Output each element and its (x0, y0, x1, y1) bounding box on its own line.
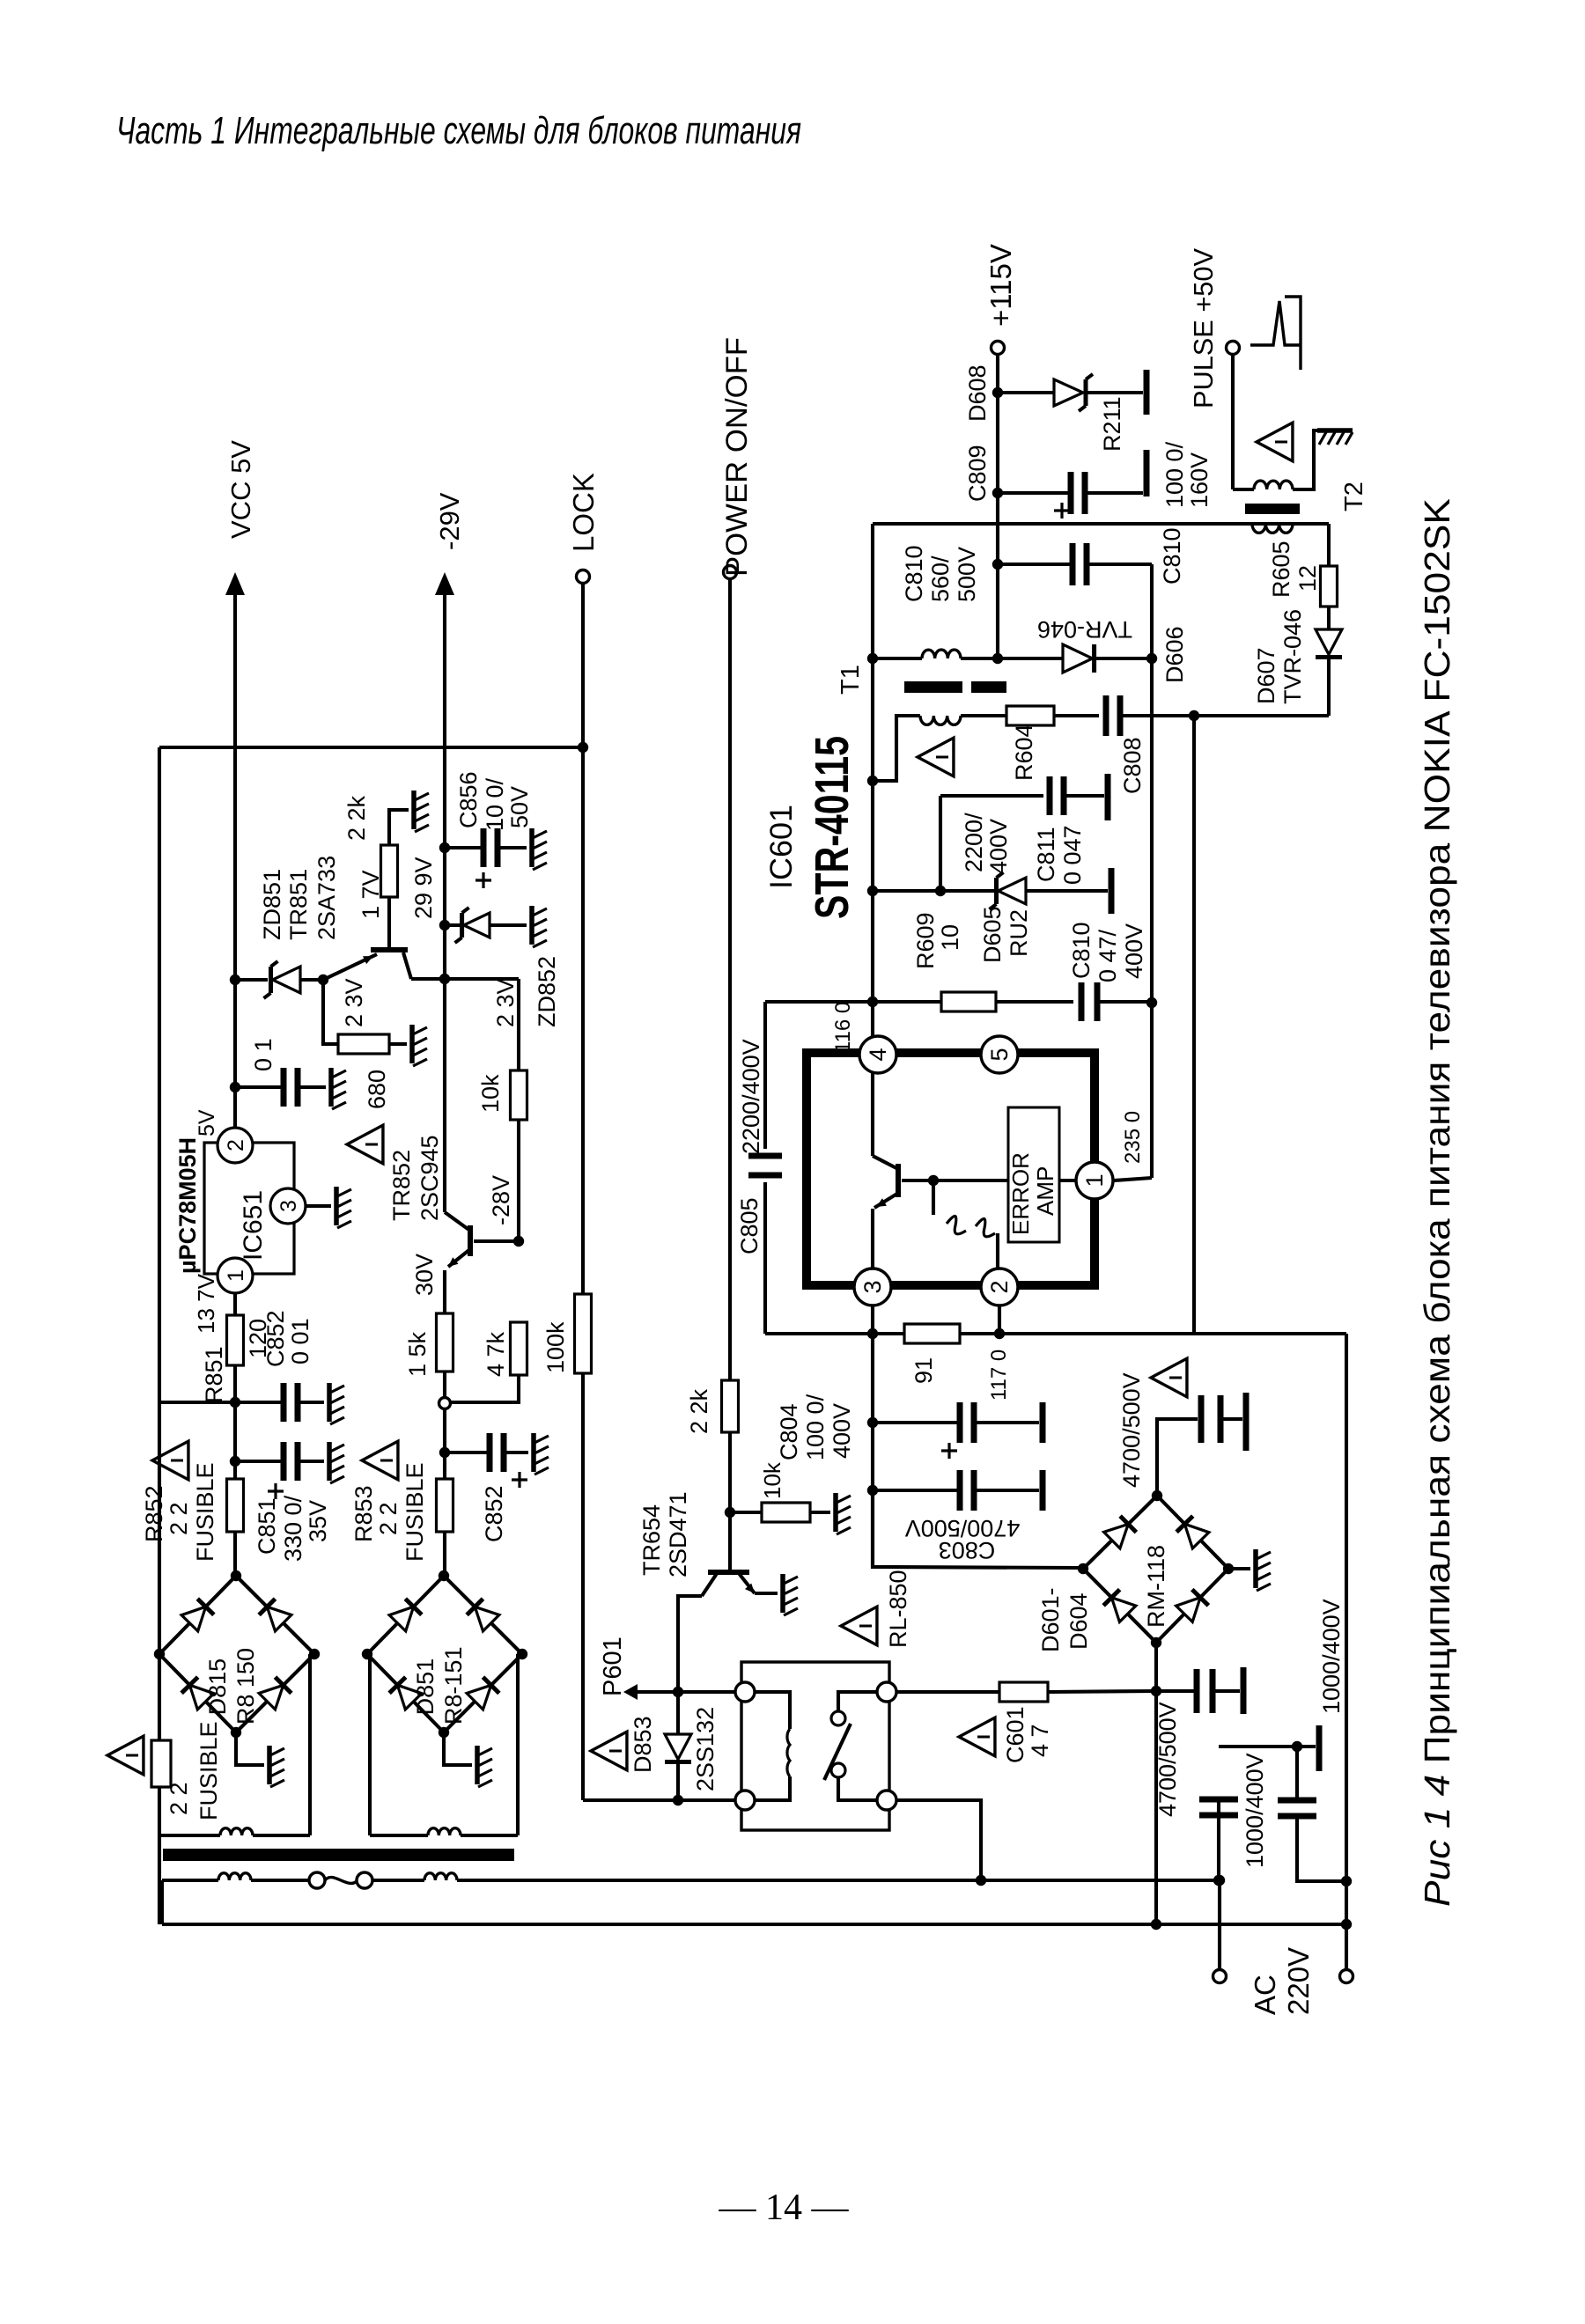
svg-text:C808: C808 (1119, 737, 1146, 794)
wire D815 legs (308, 1654, 312, 1835)
warning triangle R853 (362, 1441, 398, 1480)
node C852 prime (439, 1447, 450, 1458)
svg-text:100 0/: 100 0/ (1161, 441, 1188, 508)
svg-text:100k: 100k (542, 1321, 569, 1373)
wire internal base (902, 1179, 1008, 1182)
svg-text:TR851: TR851 (285, 869, 312, 940)
resistor R609 10 (941, 992, 996, 1011)
svg-text:C810: C810 (1159, 527, 1185, 585)
svg-text:4: 4 (865, 1048, 891, 1061)
svg-text:R851: R851 (201, 1346, 227, 1403)
node LOCK/Y849 (578, 742, 588, 753)
svg-text:D853: D853 (630, 1716, 656, 1773)
internal squiggles (932, 1180, 935, 1215)
IC IC651 box (204, 1143, 294, 1274)
wire box left rail X991 (871, 524, 874, 1053)
capacitor 1000/400V (row) (1156, 1689, 1197, 1693)
ground C851 (327, 1442, 332, 1481)
node T1 sec / X1133 (992, 653, 1003, 664)
svg-text:4 7k: 4 7k (483, 1331, 509, 1377)
node C852 0 01 (230, 1397, 240, 1408)
terminal -29V arrow (435, 572, 454, 595)
capacitor C810 560/500V (998, 563, 1072, 566)
capacitor C852 0 01 (235, 1401, 283, 1404)
zener D608 (998, 391, 1054, 394)
svg-text:C804: C804 (776, 1403, 802, 1460)
svg-text:C809: C809 (964, 445, 991, 502)
resistor R604 (961, 714, 1006, 717)
node ZD852 (439, 920, 450, 930)
wire AC A riser (1218, 1880, 1221, 1970)
svg-text:C851: C851 (254, 1497, 280, 1555)
resistor C601 4 7 (999, 1682, 1048, 1702)
svg-text:160V: 160V (1186, 452, 1213, 508)
capacitor C811 0 047 (1047, 776, 1053, 815)
svg-text:400V: 400V (985, 819, 1012, 874)
svg-text:4700/500V: 4700/500V (1118, 1372, 1145, 1488)
svg-text:— 14 —: — 14 — (719, 2188, 850, 2228)
relay coil (735, 1682, 755, 1702)
svg-text:2200/400V: 2200/400V (738, 1039, 764, 1154)
svg-text:TVR-046: TVR-046 (1279, 609, 1306, 704)
pin 1 IC651 (217, 1258, 253, 1293)
capacitor C808 (1103, 695, 1109, 736)
ground 10k (833, 1493, 838, 1532)
svg-text:2: 2 (224, 1139, 248, 1151)
wire AC rail left drop (160, 1880, 164, 1924)
terminal AC B (1340, 1970, 1353, 1983)
svg-text:3: 3 (859, 1280, 886, 1293)
svg-text:2 2: 2 2 (375, 1502, 402, 1535)
ground T2 (1317, 428, 1353, 433)
svg-text:10: 10 (937, 924, 963, 951)
svg-text:D601-: D601- (1037, 1587, 1064, 1652)
ground 0 1 (328, 1068, 334, 1107)
wire X1313 to rail2 (1154, 1691, 1158, 1924)
wire bridge top to cap (1157, 1419, 1198, 1496)
svg-text:D607: D607 (1253, 647, 1279, 704)
relay RL-850 box (741, 1662, 889, 1830)
ground RM-118 (1228, 1567, 1250, 1570)
wire AC rail 2 (162, 1923, 1346, 1926)
svg-text:0 47/: 0 47/ (1095, 929, 1121, 982)
svg-text:0 01: 0 01 (287, 1318, 313, 1364)
svg-text:TR654: TR654 (638, 1504, 665, 1576)
svg-text:-28V: -28V (488, 1175, 514, 1225)
svg-text:500V: 500V (954, 547, 980, 602)
wire ZD851 row (235, 978, 268, 982)
svg-text:C856: C856 (455, 771, 482, 828)
pin 3 IC651 (270, 1188, 306, 1224)
terminal AC A (1213, 1970, 1227, 1983)
svg-text:ZD851: ZD851 (259, 869, 285, 940)
svg-text:ERROR: ERROR (1007, 1152, 1034, 1235)
resistor R605 12 (1321, 566, 1338, 607)
wire TR852 base (474, 1239, 519, 1243)
svg-text:FUSIBLE: FUSIBLE (195, 1721, 222, 1820)
svg-text:91: 91 (910, 1357, 937, 1384)
node ZD851 left (230, 974, 240, 985)
wire right edge X1529 (1345, 1334, 1348, 1970)
svg-text:T1: T1 (837, 665, 865, 695)
svg-text:C810: C810 (901, 545, 927, 602)
svg-text:29 9V: 29 9V (410, 857, 437, 919)
svg-text:D604: D604 (1065, 1592, 1092, 1650)
node D608 (992, 387, 1003, 398)
svg-text:LOCK: LOCK (567, 473, 600, 552)
node X1313 rail2 (1151, 1919, 1161, 1930)
svg-text:4 7: 4 7 (1027, 1724, 1053, 1757)
ground C856 (529, 828, 534, 867)
svg-text:TVR-046: TVR-046 (1037, 616, 1132, 643)
warning triangle 680 (347, 1125, 383, 1164)
terminal LOCK (577, 570, 590, 584)
wire top rail Y595 (873, 522, 1329, 526)
svg-text:FUSIBLE: FUSIBLE (402, 1462, 428, 1562)
wire T2 top right (1293, 430, 1330, 489)
pin 2 (981, 1269, 1018, 1305)
ground D851 (444, 1732, 472, 1765)
svg-text:10k: 10k (477, 1074, 504, 1113)
node X1529 rail2 (1341, 1919, 1352, 1930)
svg-text:C852: C852 (262, 1310, 289, 1367)
pin 4 (859, 1036, 896, 1073)
ground C852 right (531, 1433, 536, 1472)
T1 core bars (904, 681, 962, 693)
svg-text:AMP: AMP (1032, 1166, 1058, 1216)
fusible resistor 2 2 bottom-left (151, 1740, 171, 1787)
resistor 680 (338, 1034, 389, 1054)
node 10k stub (725, 1507, 735, 1518)
svg-text:560/: 560/ (927, 555, 954, 602)
capacitor 4700/500V snubber (1198, 1395, 1205, 1443)
node C851 (230, 1456, 240, 1467)
transistor internal STR (871, 1073, 874, 1156)
warning triangle P601 (591, 1732, 627, 1770)
node TR851 emitter (318, 974, 328, 985)
svg-text:D815: D815 (204, 1658, 231, 1716)
wire left rail (158, 747, 161, 1652)
svg-text:C805: C805 (736, 1197, 763, 1254)
wire right edge down (1327, 524, 1331, 566)
svg-text:12: 12 (1294, 565, 1321, 592)
svg-text:D605: D605 (979, 906, 1006, 963)
node pin3 rail (867, 1328, 878, 1339)
svg-text:13 7V: 13 7V (193, 1273, 219, 1334)
wire LOCK bottom row (583, 1798, 745, 1802)
terminal +115V (992, 342, 1005, 355)
svg-text:220V: 220V (1282, 1947, 1315, 2015)
wire bridge bottom (1154, 1643, 1158, 1691)
node collector/-29V (439, 974, 450, 984)
svg-text:2 2: 2 2 (166, 1782, 192, 1815)
node internal (928, 1175, 939, 1186)
resistor 10k (TR852 base) (511, 1070, 527, 1120)
node TR852 base (513, 1236, 524, 1247)
warning triangle T1 (918, 738, 954, 776)
svg-text:R211: R211 (1099, 396, 1125, 452)
pin 5 (981, 1036, 1018, 1073)
node 4700 cap (867, 1485, 878, 1496)
wire C811 row (940, 794, 1043, 798)
winding T1 primary (920, 716, 961, 724)
svg-text:AC: AC (1249, 1975, 1281, 2015)
capacitor C809 100 0/160V (998, 491, 1070, 495)
svg-text:0 1: 0 1 (250, 1038, 276, 1071)
bridge rectifier D815 R8 150 (159, 1576, 236, 1654)
svg-text:µPC78M05H: µPC78M05H (174, 1137, 201, 1274)
wire pin1 to R851 (233, 1293, 237, 1315)
svg-text:R853: R853 (350, 1485, 377, 1542)
svg-text:POWER ON/OFF: POWER ON/OFF (720, 337, 754, 577)
svg-text:2: 2 (986, 1280, 1013, 1293)
wire riser X1068 (939, 796, 942, 891)
terminal bar U (1297, 1745, 1316, 1748)
ground C852 0 01 (327, 1383, 332, 1422)
wire R609 row (765, 1000, 941, 1004)
zener ZD851 (273, 967, 301, 993)
svg-text:STR-40115: STR-40115 (806, 736, 859, 919)
wire source rail Y1515 (765, 1332, 1346, 1335)
svg-text:R604: R604 (1011, 724, 1037, 781)
svg-text:35V: 35V (305, 1500, 331, 1542)
ground 2 2k (411, 791, 417, 829)
node U top (1292, 1741, 1302, 1752)
svg-text:C810: C810 (1068, 922, 1095, 979)
svg-text:RL-850: RL-850 (885, 1570, 911, 1648)
terminal P601 arrow (623, 1684, 638, 1700)
node P601 (673, 1687, 683, 1697)
resistor R853 fusible (437, 1479, 453, 1532)
fuse in AC line (309, 1872, 325, 1888)
resistor 4 7k (511, 1322, 527, 1375)
svg-text:D606: D606 (1161, 626, 1188, 683)
wire TR851 collector row (411, 977, 519, 981)
transistor TR851 (371, 947, 408, 952)
svg-text:1000/400V: 1000/400V (1242, 1753, 1268, 1868)
svg-text:Рис 1 4 Принципиальная схема: Рис 1 4 Принципиальная схема блока питан… (1417, 498, 1457, 1907)
terminal PULSE +50V (1227, 342, 1240, 355)
node relay/rail1 (976, 1875, 986, 1886)
svg-text:4700/500V: 4700/500V (1154, 1702, 1181, 1817)
svg-text:2 2k: 2 2k (686, 1388, 712, 1434)
pin 2 IC651 (217, 1128, 253, 1163)
svg-text:100 0/: 100 0/ (802, 1394, 829, 1460)
svg-text:117 0: 117 0 (987, 1350, 1011, 1401)
diode D853 (676, 1692, 680, 1734)
pulse waveform (1250, 301, 1301, 345)
warning triangle R852 (152, 1441, 188, 1480)
svg-text:-29V: -29V (434, 492, 465, 550)
node pin2 rail (994, 1328, 1005, 1339)
wire to pin1 (1059, 1179, 1076, 1182)
transformer T2 (1252, 524, 1293, 533)
bridge rectifier RM-118 (1083, 1496, 1157, 1569)
svg-text:50V: 50V (506, 786, 533, 828)
capacitor 0 1 (235, 1085, 283, 1089)
node U right (1341, 1876, 1352, 1886)
node 0 1 cap (230, 1082, 240, 1092)
capacitor C856 (445, 846, 483, 849)
svg-text:2 2: 2 2 (166, 1502, 192, 1535)
node Y1138 (867, 997, 878, 1007)
wire C852 row (159, 1401, 235, 1404)
svg-text:3: 3 (276, 1200, 301, 1212)
wire pin3 down (871, 1305, 874, 1334)
svg-text:2SA733: 2SA733 (313, 856, 340, 940)
capacitor C851 electrolytic (235, 1460, 283, 1463)
resistor 1 5k (437, 1313, 453, 1372)
wire to R852 (233, 1461, 237, 1479)
svg-text:R8-151: R8-151 (440, 1647, 467, 1725)
svg-text:400V: 400V (829, 1403, 855, 1459)
capacitor C810 0 47/400V (1079, 982, 1085, 1021)
zener ZD852 (445, 923, 461, 927)
bridge rectifier D851 R8-151 (367, 1576, 444, 1654)
wire D851 legs (368, 1654, 372, 1835)
svg-text:C601: C601 (1002, 1706, 1028, 1763)
wire X1356 down to rail (1192, 716, 1196, 1334)
node D853 bottom (673, 1795, 683, 1806)
wire box bottom edge (873, 1490, 1083, 1568)
node C804 (867, 1417, 878, 1428)
node D606 cathode (1146, 653, 1157, 664)
node Y1012 (867, 886, 878, 896)
svg-text:TR852: TR852 (388, 1150, 415, 1221)
zener D605 RU2 (940, 889, 999, 893)
svg-text:T2: T2 (1340, 482, 1368, 511)
relay switch (877, 1682, 896, 1702)
resistor 2 2k (TR654) (722, 1380, 739, 1432)
svg-text:10k: 10k (759, 1461, 785, 1499)
svg-text:400V: 400V (1121, 923, 1147, 979)
terminal VCC 5V arrow (225, 572, 245, 595)
capacitor C852 (right) (445, 1451, 489, 1454)
resistor 91 (904, 1324, 960, 1343)
svg-text:+115V: +115V (984, 244, 1017, 327)
diode D607 (1316, 629, 1342, 655)
svg-text:IC601: IC601 (764, 805, 799, 889)
capacitor C804 100 0/400V (873, 1421, 959, 1424)
node rail1 end (1214, 1875, 1225, 1886)
IC STR-40115 box (807, 1053, 1095, 1285)
svg-text:2200/: 2200/ (961, 813, 987, 872)
svg-text:IC651: IC651 (239, 1190, 268, 1261)
svg-text:2 2k: 2 2k (343, 795, 370, 841)
svg-text:C803: C803 (939, 1537, 996, 1563)
wire relay to C601 (896, 1690, 999, 1694)
svg-text:116 0: 116 0 (831, 1002, 855, 1053)
wire 10k drop (517, 979, 520, 1070)
svg-text:5: 5 (986, 1048, 1013, 1061)
wire X1308 feedback (1150, 658, 1154, 1178)
resistor R852 fusible (227, 1479, 244, 1532)
svg-text:ZD852: ZD852 (534, 956, 560, 1027)
resistor 100k (575, 1294, 592, 1373)
wire top rail Y849 (159, 746, 583, 749)
resistor R851 120 (227, 1315, 244, 1365)
ground TR654 (780, 1574, 785, 1613)
transformer secondary row (159, 1834, 220, 1837)
node C856 (439, 842, 450, 853)
node T1 top left (867, 653, 878, 664)
svg-text:30V: 30V (411, 1254, 438, 1296)
svg-text:C852: C852 (481, 1485, 507, 1542)
ground pin3 (334, 1187, 339, 1225)
svg-text:PULSE +50V: PULSE +50V (1188, 248, 1219, 408)
svg-text:0 047: 0 047 (1059, 825, 1086, 885)
node snubber (1189, 710, 1199, 721)
svg-text:330 0/: 330 0/ (280, 1495, 306, 1562)
svg-text:1000/400V: 1000/400V (1318, 1599, 1345, 1714)
diode D606 (1063, 644, 1093, 673)
node C601 row (1151, 1686, 1161, 1696)
node X1308/Y1139 (1146, 997, 1157, 1008)
svg-text:R609: R609 (912, 912, 939, 969)
svg-text:D608: D608 (964, 364, 991, 422)
warning triangle C601 (959, 1717, 995, 1756)
resistor 10k (TR654 base) (730, 1511, 762, 1514)
node U left rail1 (1213, 1875, 1224, 1886)
warning triangle 4700 cap (1151, 1358, 1187, 1397)
wire 680 branch (323, 980, 338, 1044)
svg-text:2SC945: 2SC945 (417, 1135, 443, 1221)
svg-text:2SD471: 2SD471 (665, 1491, 691, 1578)
ground 680 (409, 1025, 415, 1063)
wire inverted U caps (1217, 1798, 1220, 1880)
wire primary row / AC rail 1 (162, 1879, 218, 1882)
pin 1 (1076, 1162, 1113, 1199)
svg-text:RM-118: RM-118 (1143, 1545, 1169, 1628)
ERROR AMP box (1008, 1107, 1059, 1242)
resistor 2 2k (TR851 base) (387, 897, 391, 950)
svg-text:10 0/: 10 0/ (482, 777, 508, 831)
svg-text:R8 150: R8 150 (232, 1648, 259, 1725)
svg-text:1: 1 (1081, 1173, 1108, 1187)
transistor TR654 (708, 1570, 749, 1575)
capacitor C805 2200/400V (763, 1002, 767, 1149)
svg-text:VCC 5V: VCC 5V (225, 440, 256, 539)
svg-text:2SS132: 2SS132 (692, 1707, 719, 1791)
node T1 prim left (867, 776, 878, 786)
wire pin2 down (998, 1305, 1001, 1334)
svg-text:FUSIBLE: FUSIBLE (192, 1462, 218, 1562)
pin 3 (854, 1269, 891, 1305)
wire X991 below rail (871, 1334, 874, 1567)
svg-text:1: 1 (224, 1269, 248, 1282)
winding T1 secondary (873, 657, 922, 660)
svg-text:D851: D851 (412, 1658, 439, 1716)
terminal POWER ON/OFF (724, 566, 737, 579)
wire D605 row (873, 889, 940, 893)
ground D815 (236, 1732, 264, 1765)
connector circle 1 5k bottom (439, 1398, 451, 1409)
wire relay bottom to rail (896, 1800, 981, 1880)
warning triangle fusible (107, 1736, 144, 1775)
svg-text:R605: R605 (1268, 541, 1294, 598)
svg-text:2 3V: 2 3V (341, 978, 367, 1027)
svg-text:R852: R852 (141, 1485, 167, 1542)
svg-text:C811: C811 (1033, 827, 1059, 882)
node C810 (992, 559, 1003, 570)
warning triangle T2 (1257, 423, 1293, 461)
svg-text:2 3V: 2 3V (492, 978, 519, 1027)
svg-text:5V: 5V (195, 1109, 219, 1136)
svg-text:235 0: 235 0 (1121, 1111, 1145, 1164)
node riser (935, 886, 946, 896)
svg-text:680: 680 (364, 1070, 390, 1109)
svg-text:1 5k: 1 5k (404, 1331, 431, 1377)
